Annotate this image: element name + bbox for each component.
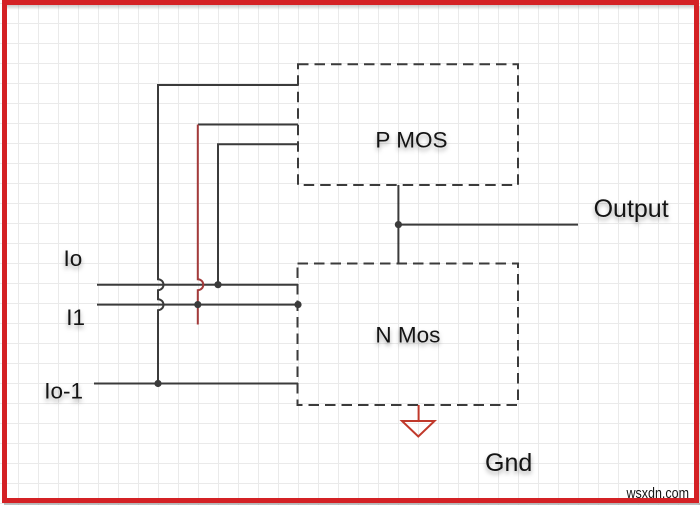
svg-text:Output: Output: [594, 195, 669, 223]
svg-text:Io: Io: [64, 246, 83, 271]
svg-text:N Mos: N Mos: [375, 322, 440, 347]
svg-text:P MOS: P MOS: [375, 128, 447, 153]
svg-text:Gnd: Gnd: [485, 449, 532, 477]
svg-text:I1: I1: [66, 305, 85, 330]
svg-text:Io-1: Io-1: [44, 379, 83, 404]
